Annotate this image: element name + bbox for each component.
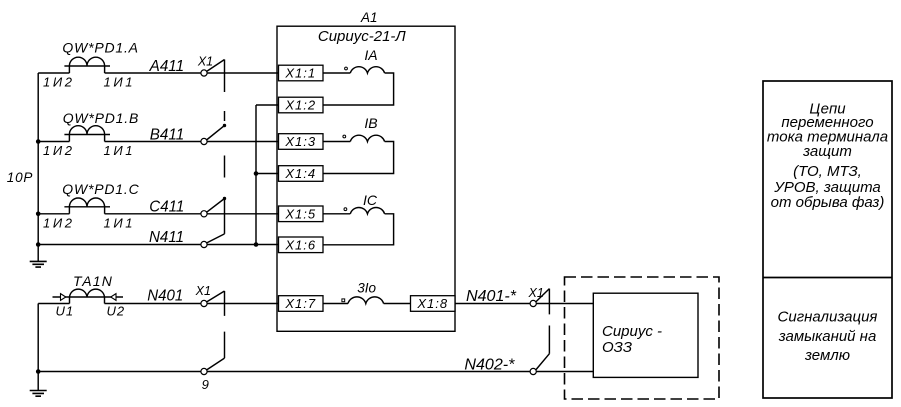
svg-text:IA: IA: [364, 47, 377, 63]
svg-text:А1: А1: [360, 10, 378, 25]
svg-text:A411: A411: [149, 58, 184, 75]
svg-text:IC: IC: [363, 192, 378, 208]
svg-text:ТА1N: ТА1N: [73, 273, 113, 289]
svg-text:IB: IB: [364, 115, 377, 131]
svg-text:от обрыва фаз): от обрыва фаз): [771, 194, 885, 211]
svg-text:X1:2: X1:2: [284, 98, 316, 113]
svg-text:X1: X1: [195, 284, 211, 298]
svg-text:3Io: 3Io: [357, 281, 376, 296]
svg-text:X1:8: X1:8: [416, 296, 448, 311]
svg-text:ОЗЗ: ОЗЗ: [602, 339, 632, 356]
svg-text:1И1: 1И1: [104, 74, 136, 89]
svg-text:защит: защит: [802, 143, 852, 160]
svg-text:N411: N411: [149, 229, 184, 246]
svg-text:N401-*: N401-*: [466, 288, 517, 305]
svg-text:QW*PD1.C: QW*PD1.C: [62, 181, 139, 197]
svg-text:B411: B411: [150, 126, 185, 143]
svg-text:QW*PD1.A: QW*PD1.A: [62, 40, 138, 56]
svg-text:X1: X1: [528, 286, 544, 300]
svg-text:1И2: 1И2: [43, 216, 75, 231]
svg-text:9: 9: [202, 377, 209, 392]
svg-text:N401: N401: [147, 288, 183, 305]
svg-text:Сириус -: Сириус -: [602, 323, 662, 340]
svg-text:1И1: 1И1: [104, 143, 136, 158]
svg-text:1И1: 1И1: [104, 216, 136, 231]
svg-text:X1:7: X1:7: [284, 296, 316, 311]
svg-text:X1:5: X1:5: [284, 206, 316, 221]
svg-text:землю: землю: [804, 347, 850, 364]
svg-text:X1:1: X1:1: [284, 66, 316, 81]
svg-text:U1: U1: [56, 303, 75, 318]
svg-text:X1:4: X1:4: [284, 166, 316, 181]
svg-text:Сигнализация: Сигнализация: [778, 309, 878, 326]
svg-text:QW*PD1.B: QW*PD1.B: [63, 110, 139, 126]
svg-text:Сириус-21-Л: Сириус-21-Л: [318, 28, 407, 45]
svg-text:X1:3: X1:3: [284, 134, 316, 149]
svg-text:X1:6: X1:6: [284, 237, 316, 252]
svg-text:(ТО, МТЗ,: (ТО, МТЗ,: [793, 163, 862, 180]
svg-text:X1: X1: [197, 54, 213, 68]
svg-text:U2: U2: [107, 303, 126, 318]
svg-text:C411: C411: [149, 198, 184, 215]
svg-text:1И2: 1И2: [43, 143, 75, 158]
svg-text:замыканий на: замыканий на: [778, 328, 877, 345]
svg-text:1И2: 1И2: [43, 74, 75, 89]
svg-text:10Р: 10Р: [7, 170, 33, 185]
svg-text:N402-*: N402-*: [464, 357, 515, 374]
